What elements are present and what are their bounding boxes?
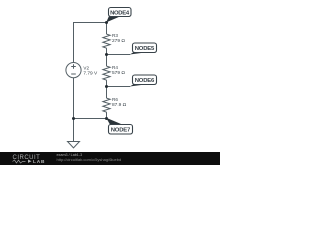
svg-text:NODE5: NODE5 xyxy=(135,46,155,52)
svg-text:R4: R4 xyxy=(112,65,118,70)
svg-text:R3: R3 xyxy=(112,33,118,38)
svg-text:579 Ω: 579 Ω xyxy=(112,70,125,76)
svg-text:LAB: LAB xyxy=(33,159,45,165)
svg-text:279 Ω: 279 Ω xyxy=(112,38,125,44)
svg-text:R6: R6 xyxy=(112,97,118,102)
svg-text:87.9 Ω: 87.9 Ω xyxy=(112,102,127,108)
svg-text:http://circuitlab.com/c/5yshag: http://circuitlab.com/c/5yshag/6luebd xyxy=(57,157,122,162)
svg-text:7.79 V: 7.79 V xyxy=(83,70,98,76)
svg-text:NODE4: NODE4 xyxy=(110,10,130,16)
svg-text:V2: V2 xyxy=(83,65,89,70)
svg-text:NODE6: NODE6 xyxy=(135,78,155,84)
svg-text:NODE7: NODE7 xyxy=(111,128,131,134)
